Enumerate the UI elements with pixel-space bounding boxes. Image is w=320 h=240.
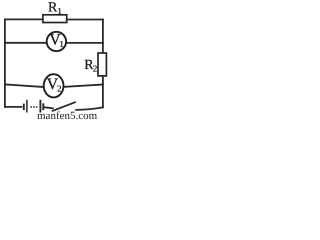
resistor R2: [98, 53, 106, 76]
voltmeter V2: [44, 74, 64, 97]
svg-text:manfen5.com: manfen5.com: [37, 110, 98, 120]
battery cell 1 long plate: [26, 100, 28, 113]
wire right vertical upper: [102, 20, 104, 54]
svg-text:1: 1: [57, 6, 62, 16]
wire V1 branch right: [66, 42, 103, 44]
switch lever (open): [52, 102, 75, 111]
wire V2 branch right: [63, 85, 103, 87]
wire switch contact to bottom right corner: [76, 107, 103, 110]
wire left vertical: [4, 19, 6, 107]
svg-text:2: 2: [57, 84, 62, 94]
resistor R1: [43, 15, 67, 23]
svg-text:2: 2: [93, 64, 98, 74]
wire battery to switch pivot: [45, 107, 53, 108]
battery dots: [30, 106, 32, 108]
wire V1 branch left: [5, 42, 47, 44]
battery cell 2 short plate: [42, 103, 44, 110]
wire top left segment: [5, 18, 43, 20]
wire top right segment: [67, 19, 103, 21]
wire right vertical lower: [102, 76, 104, 107]
battery cell 2 long plate: [39, 100, 41, 113]
battery cell 1 short plate: [23, 104, 25, 111]
wire V2 branch left: [5, 84, 44, 87]
voltmeter V1: [47, 32, 66, 51]
svg-text:1: 1: [59, 39, 64, 49]
wire bottom left to battery: [5, 106, 22, 108]
